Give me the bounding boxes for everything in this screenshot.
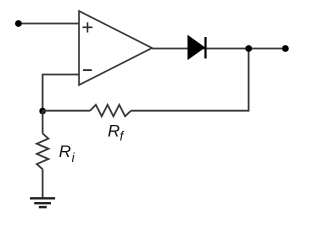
svg-text:R: R	[59, 142, 71, 161]
resistor Ri	[37, 134, 49, 170]
resistor Rf	[90, 105, 131, 117]
wire: inverting input to feedback node	[43, 75, 79, 112]
op-amp plus input marker	[83, 22, 93, 32]
node A: feedback junction dot	[39, 108, 46, 115]
wire: Ri to ground	[42, 169, 44, 198]
node: output terminal dot	[282, 45, 289, 52]
diode D1	[188, 36, 206, 60]
node B: output junction dot	[245, 45, 252, 52]
op-amp U1	[79, 11, 152, 85]
ground	[30, 198, 55, 207]
wire: node to resistor Ri	[42, 111, 44, 134]
wire: Rf to output corner	[131, 49, 249, 111]
node: input terminal dot	[15, 20, 22, 27]
wire: op-amp output through diode to output terminal	[152, 48, 285, 50]
svg-text:R: R	[108, 122, 120, 141]
op-amp minus input marker	[83, 69, 92, 71]
wire: node to Rf	[43, 110, 90, 112]
wire: input to op-amp non-inverting input	[18, 23, 79, 25]
